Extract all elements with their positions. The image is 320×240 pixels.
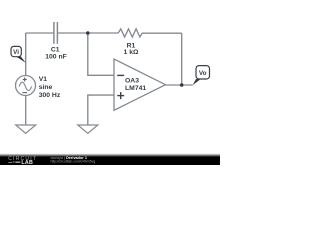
svg-text:Vo: Vo bbox=[199, 70, 207, 77]
svg-text:sine: sine bbox=[39, 84, 53, 91]
svg-text:LM741: LM741 bbox=[125, 85, 146, 92]
svg-text:http:⁄⁄circuitlab.com⁄c⁄4hm5vg: http:⁄⁄circuitlab.com⁄c⁄4hm5vg bbox=[51, 160, 96, 164]
svg-text:1 kΩ: 1 kΩ bbox=[124, 49, 139, 56]
svg-text:V1: V1 bbox=[39, 76, 48, 83]
svg-text:OA3: OA3 bbox=[125, 78, 139, 85]
svg-text:C1: C1 bbox=[51, 47, 60, 54]
svg-text:LAB: LAB bbox=[21, 160, 33, 165]
svg-text:300 Hz: 300 Hz bbox=[39, 92, 61, 99]
svg-text:Vi: Vi bbox=[13, 49, 19, 56]
svg-text:100 nF: 100 nF bbox=[45, 54, 67, 61]
